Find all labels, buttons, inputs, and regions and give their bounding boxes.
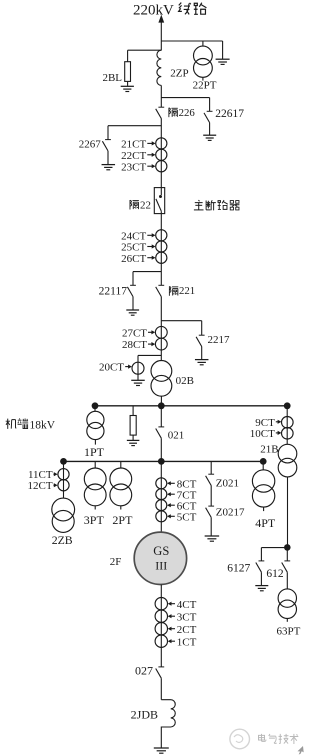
svg-text:28CT: 28CT	[122, 339, 147, 351]
svg-text:12CT: 12CT	[28, 480, 53, 492]
CT 5CT	[156, 511, 167, 522]
svg-text:2JDB: 2JDB	[131, 708, 158, 722]
voltage transformer 63PT	[278, 589, 296, 622]
svg-text:1CT: 1CT	[177, 636, 197, 648]
svg-text:25CT: 25CT	[121, 242, 146, 254]
wire bus1 to 021	[160, 406, 162, 427]
svg-text:02B: 02B	[176, 375, 194, 387]
node 220kV line label	[133, 3, 206, 19]
arrester on 18kV bus	[130, 406, 136, 440]
CT 25CT	[156, 241, 167, 252]
label 20CT	[99, 361, 132, 373]
wire bus1 to 9CT	[286, 406, 288, 445]
ground for Z0217	[205, 536, 220, 541]
disconnector 22117	[127, 285, 135, 310]
transformer 02B	[151, 361, 172, 406]
CT 11CT	[58, 469, 69, 480]
CT 6CT	[156, 500, 167, 511]
svg-text:5CT: 5CT	[177, 512, 197, 524]
CT 9CT	[282, 417, 294, 429]
voltage transformer 2PT	[110, 461, 132, 509]
label 7CT	[167, 490, 197, 502]
switch 021	[156, 427, 165, 462]
wire to 2267	[108, 126, 161, 140]
ground for 2BL	[121, 86, 134, 91]
label 22617	[215, 108, 244, 120]
voltage transformer 1PT	[87, 406, 104, 445]
label 2PT	[112, 513, 133, 527]
transformer 2ZB	[52, 498, 75, 532]
switch 6127	[256, 561, 264, 586]
label 22PT	[193, 80, 217, 92]
CT 24CT	[156, 230, 167, 241]
wire 21B to node	[287, 477, 289, 548]
svg-text:4CT: 4CT	[177, 599, 197, 611]
wire to 22117	[133, 272, 161, 286]
svg-text:23CT: 23CT	[121, 161, 146, 173]
ground for 20CT	[131, 380, 145, 385]
transformer 21B	[278, 444, 297, 477]
svg-text:Z021: Z021	[216, 478, 239, 490]
label 21B	[260, 444, 278, 456]
label 机端18kV	[6, 418, 56, 431]
wire below GS	[160, 585, 162, 667]
circuit breaker (main)	[154, 188, 164, 286]
svg-text:2267: 2267	[79, 138, 102, 150]
label 3CT	[168, 611, 197, 623]
ground for 6127	[255, 586, 268, 591]
ground right of 22PT	[216, 59, 230, 64]
wire to 22PT	[161, 41, 222, 59]
svg-text:220kV: 220kV	[133, 3, 174, 19]
ground for 2JDB	[154, 748, 169, 753]
junction dot bus2-left	[60, 458, 67, 465]
disconnector 2267	[102, 140, 111, 165]
label 3PT	[84, 513, 105, 527]
wire to 20CT	[138, 355, 161, 380]
svg-text:1PT: 1PT	[84, 445, 105, 459]
svg-text:63PT: 63PT	[277, 625, 301, 637]
CT 12CT	[58, 480, 69, 491]
svg-text:6127: 6127	[227, 562, 250, 574]
reactor 2ZP	[157, 50, 161, 85]
svg-text:22: 22	[140, 199, 151, 211]
wire to 2BL	[128, 50, 162, 62]
label 21CT	[121, 139, 155, 151]
wire 220kV line arrow	[158, 15, 164, 51]
svg-text:3CT: 3CT	[177, 611, 197, 623]
label 隔226	[169, 107, 196, 119]
label 主断路器	[194, 200, 240, 210]
wire bus2 to 11CT	[63, 461, 65, 498]
disconnector 2217	[196, 335, 205, 359]
CT 28CT	[155, 338, 167, 350]
junction dot bus2-right	[260, 458, 267, 465]
svg-text:2BL: 2BL	[102, 72, 122, 84]
label Z021	[216, 478, 239, 490]
CT 27CT	[155, 326, 167, 338]
svg-text:2217: 2217	[208, 334, 231, 346]
voltage transformer 4PT	[252, 461, 274, 511]
CT 8CT	[156, 478, 167, 489]
label 9CT	[255, 417, 281, 429]
wire bus2 to GS	[160, 461, 162, 532]
CT 20CT	[132, 362, 144, 374]
label 021	[168, 430, 185, 442]
svg-text:226: 226	[179, 107, 196, 119]
label 027	[135, 663, 153, 677]
label Z0217	[216, 506, 245, 518]
label 27CT	[122, 327, 155, 339]
label 10CT	[250, 428, 282, 440]
label 6127	[227, 562, 250, 574]
svg-text:Z0217: Z0217	[216, 506, 245, 518]
junction dot bus1-main	[158, 402, 165, 409]
label 2ZP	[170, 68, 188, 80]
label 6CT	[167, 501, 197, 513]
label 1CT	[168, 636, 197, 648]
CT 2CT	[155, 623, 167, 635]
junction dot bus2-main	[158, 458, 165, 465]
junction dot 612 node	[284, 544, 291, 551]
svg-text:GS: GS	[153, 544, 169, 558]
svg-text:21CT: 21CT	[121, 139, 146, 151]
label 8CT	[167, 479, 197, 491]
wire to 6127	[261, 548, 287, 561]
label 1PT	[84, 445, 105, 459]
CT 10CT	[282, 428, 294, 440]
wire to 22617	[161, 98, 209, 112]
svg-text:18kV: 18kV	[30, 419, 56, 431]
switch 027	[156, 667, 165, 700]
watermark 电气技术	[258, 734, 303, 755]
svg-text:10CT: 10CT	[250, 428, 275, 440]
label 22117	[99, 285, 128, 297]
bus 18kV lower	[64, 460, 264, 462]
wire bus2 to Z021	[210, 461, 212, 474]
CT 7CT	[156, 489, 167, 500]
ground for bus arrester	[127, 440, 140, 445]
svg-text:612: 612	[266, 568, 284, 580]
label 4PT	[255, 516, 276, 530]
label 63PT	[277, 625, 301, 637]
CT 21CT	[156, 138, 167, 149]
ground for 22117	[126, 310, 139, 315]
label 11CT	[28, 469, 58, 481]
CT 1CT	[155, 635, 167, 647]
CT 23CT	[156, 161, 167, 172]
voltage transformer 3PT	[84, 461, 106, 509]
svg-text:021: 021	[168, 430, 185, 442]
svg-text:9CT: 9CT	[255, 417, 275, 429]
watermark logo	[230, 729, 250, 749]
bus 18kV upper	[95, 405, 287, 407]
label 612	[266, 568, 284, 580]
label 2JDB	[131, 708, 158, 722]
switch Z021	[206, 474, 215, 506]
ground for 2267	[102, 165, 116, 170]
label 2BL	[102, 72, 122, 84]
svg-text:22CT: 22CT	[121, 150, 146, 162]
svg-text:22617: 22617	[215, 108, 244, 120]
wire to 2217	[161, 321, 201, 336]
label 24CT	[121, 230, 155, 242]
label 2CT	[168, 624, 197, 636]
label 2267	[79, 138, 102, 150]
svg-text:III: III	[155, 559, 167, 573]
wire below 226	[160, 119, 162, 188]
svg-text:027: 027	[135, 663, 153, 677]
label 22CT	[121, 150, 155, 162]
ground for 22617	[203, 135, 216, 140]
svg-text:24CT: 24CT	[121, 230, 146, 242]
svg-text:3PT: 3PT	[84, 513, 105, 527]
label 2217	[208, 334, 231, 346]
switch 612	[282, 547, 291, 589]
CT 26CT	[156, 252, 167, 263]
label 28CT	[122, 339, 155, 351]
CT 4CT	[155, 598, 167, 610]
label 26CT	[121, 253, 155, 265]
svg-text:22PT: 22PT	[193, 80, 217, 92]
svg-text:2PT: 2PT	[112, 513, 133, 527]
svg-text:21B: 21B	[260, 444, 278, 456]
CT 3CT	[155, 610, 167, 622]
label 2ZB	[52, 533, 73, 547]
svg-text:4PT: 4PT	[255, 516, 276, 530]
junction dot bus1-right	[284, 402, 291, 409]
switch Z0217	[206, 506, 215, 536]
svg-text:20CT: 20CT	[99, 361, 124, 373]
disconnector 22617	[204, 111, 213, 135]
disconnector 221	[156, 285, 165, 296]
label 4CT	[168, 599, 197, 611]
label 02B	[176, 375, 194, 387]
svg-text:2F: 2F	[110, 556, 122, 568]
svg-text:2ZP: 2ZP	[170, 68, 188, 80]
voltage transformer 22PT	[194, 41, 213, 81]
svg-text:26CT: 26CT	[121, 253, 146, 265]
disconnector 226	[156, 107, 165, 118]
wire below 221	[160, 297, 162, 361]
label 23CT	[121, 161, 155, 173]
label 12CT	[28, 480, 58, 492]
label 25CT	[121, 242, 155, 254]
svg-text:221: 221	[179, 285, 195, 297]
ground for 2217	[195, 360, 209, 365]
wire below 2ZP	[160, 85, 162, 107]
label 隔22	[130, 199, 151, 211]
label 隔221	[169, 285, 195, 297]
grounding reactor 2JDB	[161, 700, 175, 748]
label 2F	[110, 556, 122, 568]
surge arrester 2BL	[125, 62, 131, 86]
svg-text:22117: 22117	[99, 285, 128, 297]
CT 22CT	[156, 149, 167, 160]
label 5CT	[167, 512, 197, 524]
generator 2F GS III	[134, 532, 186, 584]
svg-text:27CT: 27CT	[122, 327, 147, 339]
junction dot bus1-1PT	[92, 402, 99, 409]
svg-text:2CT: 2CT	[177, 624, 197, 636]
svg-text:2ZB: 2ZB	[52, 533, 73, 547]
